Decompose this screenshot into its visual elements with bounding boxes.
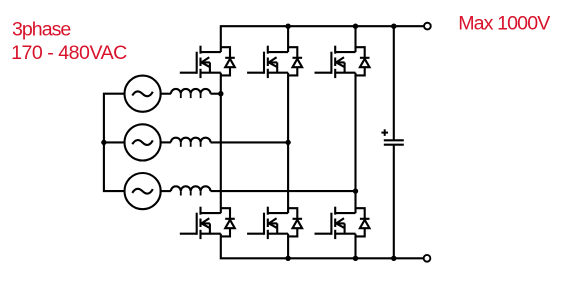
- svg-text:170 - 480VAC: 170 - 480VAC: [11, 42, 127, 64]
- svg-text:Max 1000V: Max 1000V: [458, 12, 550, 34]
- svg-text:3phase: 3phase: [12, 19, 71, 41]
